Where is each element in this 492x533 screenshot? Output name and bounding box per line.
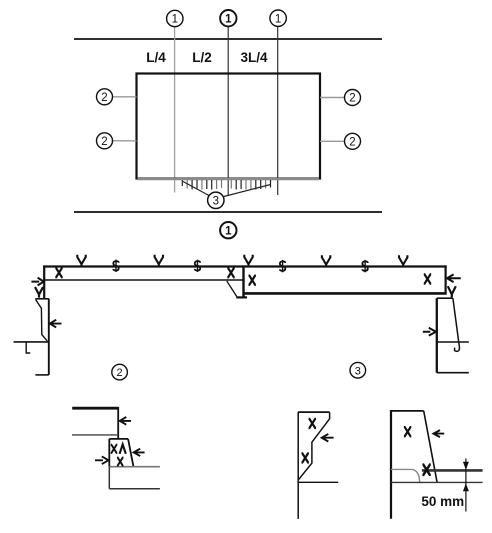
- V symbol at right beam end: [448, 286, 456, 297]
- left support bottom: [35, 374, 48, 376]
- V sensor left slab 2: [155, 255, 163, 267]
- detail2 nib block left edge: [108, 439, 110, 467]
- right support top: [437, 297, 453, 299]
- balloon 1 left: [167, 10, 183, 26]
- arrow right at right support: [423, 328, 436, 336]
- detail3b X sensor upper: [404, 427, 411, 436]
- section line 3 (3L/4): [277, 27, 279, 196]
- svg-text:2: 2: [101, 136, 107, 148]
- dimension arrow up: [463, 483, 469, 491]
- detail3a X sensor upper: [309, 419, 316, 428]
- detail2 support left edge: [108, 467, 110, 489]
- detail2 arrow right at block: [95, 456, 109, 464]
- svg-text:50 mm: 50 mm: [421, 494, 464, 509]
- detail3b arrow left at slant: [433, 430, 444, 437]
- detail2 nib block top: [109, 438, 128, 440]
- detail2 upper beam end vertical: [117, 407, 119, 439]
- hatch ticks below slab: [182, 180, 270, 190]
- V sensor right beam 1: [322, 255, 330, 267]
- left support top: [35, 298, 49, 300]
- svg-text:1: 1: [275, 13, 281, 25]
- right beam bottom edge: [244, 292, 447, 295]
- X sensor left slab 2: [227, 268, 234, 277]
- detail3a X sensor lower: [302, 453, 309, 462]
- balloon 2 right upper: [345, 90, 361, 106]
- plan view bottom border line: [74, 211, 382, 213]
- balloon 3 detail label: [350, 362, 366, 378]
- right beam right end edge: [445, 265, 447, 293]
- detail3b X sensor big: [422, 465, 430, 475]
- svg-text:3: 3: [213, 196, 219, 208]
- arrow right at left beam end: [31, 278, 43, 286]
- balloon 2 right lower: [345, 133, 361, 149]
- balloon 2 detail label: [112, 364, 128, 380]
- V symbol at left beam end: [35, 287, 43, 298]
- left slab bottom edge: [43, 279, 243, 281]
- svg-text:2: 2: [349, 93, 355, 105]
- right support bottom: [437, 372, 469, 374]
- elevation beam top edge: [43, 265, 446, 267]
- slab rectangle plan: [137, 74, 321, 179]
- detail3a stepped right profile: [298, 412, 329, 480]
- right support mid line: [437, 341, 469, 343]
- V sensor right beam 2: [399, 255, 407, 267]
- slab bottom edge gray overdraw: [138, 178, 320, 180]
- detail3b wall top edge: [391, 410, 424, 412]
- detail2 support bottom line: [109, 488, 160, 490]
- detail2 nib block slant edge: [128, 439, 133, 466]
- dimension arrow down: [463, 462, 469, 470]
- svg-text:3L/4: 3L/4: [240, 50, 268, 65]
- right support left edge: [436, 298, 438, 373]
- $ sensor left slab 2: [195, 260, 200, 272]
- balloon 1 elevation title: [220, 222, 236, 238]
- $ sensor right beam 1: [280, 260, 285, 272]
- $ sensor right beam 2: [362, 260, 367, 272]
- balloon 1 middle bold: [220, 10, 236, 26]
- left support chamfer: [36, 300, 48, 341]
- $ sensor left slab 1: [113, 260, 118, 272]
- balloon 2 left upper: [97, 89, 113, 105]
- left support right edge: [48, 299, 50, 375]
- detail2 arrow left upper: [120, 417, 131, 425]
- balloon 3: [208, 192, 224, 208]
- detail2 X sensor lower: [117, 458, 124, 466]
- detail3b wall slant edge: [424, 411, 437, 482]
- X sensor right beam 1: [249, 276, 256, 285]
- left slab left end edge: [43, 265, 45, 298]
- section line 2 (L/2): [227, 27, 229, 196]
- detail2 X sensor upper: [111, 445, 118, 453]
- V sensor left slab 1: [77, 255, 85, 267]
- leader right lower: [320, 140, 345, 142]
- leader to balloon 3 right: [224, 185, 271, 197]
- detail3b thick bearing line: [422, 469, 483, 472]
- detail2 caret sensor: [120, 444, 126, 453]
- section line 1 (L/4): [174, 27, 176, 193]
- svg-text:1: 1: [225, 225, 232, 237]
- detail3b ledge line with fillet: [391, 469, 420, 482]
- dimension line 50mm: [465, 458, 467, 511]
- detail3b wall left edge: [390, 410, 392, 519]
- ground line left: [14, 341, 48, 343]
- X sensor right beam 2: [424, 274, 431, 283]
- leader right upper: [320, 97, 345, 99]
- leader left upper: [113, 96, 137, 98]
- detail2 upper beam bottom edge: [72, 434, 118, 436]
- detail3a ground line: [298, 481, 338, 483]
- svg-text:1: 1: [172, 14, 178, 26]
- detail2 bearing ledge line: [109, 466, 160, 468]
- detail3b ground line: [391, 481, 483, 483]
- leader left lower: [113, 140, 137, 142]
- svg-text:2: 2: [101, 92, 107, 104]
- svg-text:2: 2: [117, 367, 123, 379]
- leader to balloon 3 left: [183, 182, 209, 196]
- arrow left at left support: [50, 320, 62, 328]
- svg-text:1: 1: [225, 13, 232, 25]
- nib bottom: [236, 296, 247, 298]
- detail3a top edge: [298, 411, 330, 413]
- balloon 2 left lower: [97, 133, 113, 149]
- svg-text:2: 2: [349, 136, 355, 148]
- detail2 upper beam top edge thick: [72, 407, 118, 410]
- svg-text:3: 3: [355, 365, 361, 377]
- detail3a arrow left at diagonal: [322, 434, 334, 442]
- nib diagonal: [227, 281, 237, 297]
- right support slant edge: [453, 298, 460, 351]
- svg-text:L/4: L/4: [146, 50, 166, 65]
- arrow left at right beam end: [447, 274, 461, 282]
- V sensor at joint: [244, 255, 252, 267]
- plan view top border line: [74, 38, 382, 40]
- X sensor left slab 1: [55, 268, 62, 277]
- svg-text:L/2: L/2: [192, 50, 212, 65]
- detail2 arrow left at slant: [134, 449, 145, 456]
- joint vertical at midspan: [242, 265, 244, 297]
- detail3a left edge: [297, 412, 299, 519]
- ground step mark: [26, 342, 30, 353]
- balloon 1 right: [270, 10, 286, 26]
